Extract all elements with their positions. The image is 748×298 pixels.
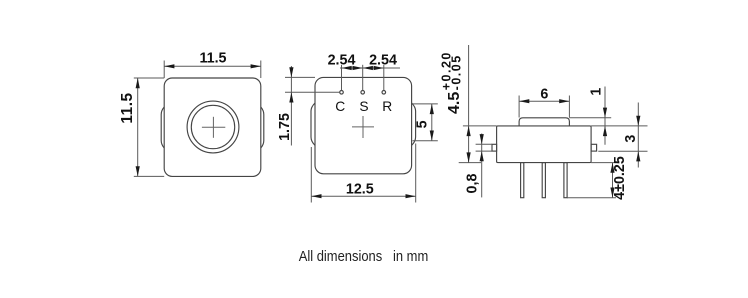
center cross horizontal — [352, 126, 374, 128]
svg-text:3: 3 — [623, 135, 639, 143]
dim 2.54: arrow at C pointing left — [342, 66, 352, 70]
dim 4.5: dimension line — [468, 45, 470, 163]
left ear front view — [161, 107, 164, 148]
dim 5: extension top — [413, 103, 438, 105]
dim 12.5: arrow left — [311, 194, 321, 198]
right ear back view — [412, 103, 416, 145]
extension body top right (shared by dim 1 and dim 3) — [591, 125, 647, 127]
body outline front view — [164, 78, 261, 176]
dim 1.75: arrow up — [289, 92, 293, 102]
dim 5: arrow up — [430, 104, 434, 114]
svg-text:R: R — [382, 99, 392, 114]
svg-text:2.54: 2.54 — [369, 52, 397, 68]
dim 0.8: arrow down (above) — [480, 134, 484, 144]
dim 4.5: arrow up — [467, 126, 471, 136]
dim 2.54: arrow at S pointing right — [353, 66, 363, 70]
dim 2.54: leader C vertical — [341, 65, 343, 91]
dim 12.5: extension right — [415, 144, 417, 203]
svg-text:12.5: 12.5 — [346, 182, 374, 198]
center cross vertical — [362, 116, 364, 138]
pin C circle — [340, 91, 344, 95]
right ear front view — [261, 107, 264, 148]
dim 0.8: extension tab top — [476, 143, 492, 145]
svg-text:-0.05: -0.05 — [450, 54, 464, 90]
dim 2.54: leader R vertical — [383, 65, 385, 91]
dim 2.54: leader S vertical — [362, 65, 364, 91]
dim 11.5 top: extension line right — [260, 61, 262, 79]
right tab side view — [591, 144, 597, 151]
dim 12.5: extension left — [310, 147, 312, 203]
svg-text:1.75: 1.75 — [277, 113, 293, 141]
dim 11.5 left: extension line bottom — [134, 175, 164, 177]
dome (rotor top) side view — [519, 118, 569, 126]
dim 11.5 left: arrow bottom — [136, 166, 140, 176]
dim 1: arrow down (above) — [603, 108, 607, 118]
svg-text:S: S — [359, 99, 368, 114]
dim 11.5 left: dimension line — [137, 78, 139, 176]
dim 6: extension right — [568, 96, 570, 118]
svg-text:2.54: 2.54 — [328, 52, 356, 68]
dim 6: arrow left — [519, 99, 529, 103]
dim 3: extension tab bottom — [598, 150, 647, 152]
body outline side view — [497, 126, 591, 163]
pin S circle — [361, 91, 365, 95]
dim 1: dimension line — [604, 87, 606, 145]
dim 6: extension left — [518, 96, 520, 118]
dim 11.5 top: arrow left — [164, 64, 174, 68]
dim 0.8: dimension line — [481, 134, 483, 198]
dim 2.54: arrow at R pointing right — [374, 66, 384, 70]
dim 2.54: dimension line — [340, 67, 400, 69]
cross slot vertical — [212, 117, 214, 138]
dim 11.5 left: arrow top — [136, 78, 140, 88]
svg-text:11.5: 11.5 — [199, 51, 226, 67]
dim 3: arrow up (below) — [636, 151, 640, 161]
dim 1.75: arrow down — [289, 67, 293, 77]
dim 6: arrow right — [559, 99, 569, 103]
dim 5: extension bottom — [413, 140, 438, 142]
dim 4.5: label — [440, 51, 464, 114]
svg-text:All dimensions in mm: All dimensions in mm — [299, 248, 429, 265]
inner circle knob — [191, 105, 234, 148]
dim 0.8: arrow up (below) — [480, 151, 484, 161]
svg-text:11.5: 11.5 — [119, 92, 136, 123]
dim 6: dimension line — [519, 100, 569, 102]
pin 3 side view — [564, 163, 567, 198]
dim 5: arrow down — [430, 131, 434, 141]
left tab side view — [492, 144, 497, 151]
dim 4±0.25: arrow up — [610, 163, 614, 173]
pin 1 side view — [521, 163, 524, 198]
dim 3: arrow down (above) — [636, 116, 640, 126]
outer circle knob — [187, 101, 239, 153]
cross slot horizontal — [202, 126, 225, 128]
dim 12.5: arrow right — [406, 194, 416, 198]
dim 11.5 top: arrow right — [251, 64, 261, 68]
dim 5: dimension line — [431, 104, 433, 141]
dim 1: extension dome top — [569, 117, 611, 119]
dim 12.5: dimension line — [311, 195, 415, 197]
svg-text:C: C — [335, 99, 345, 114]
dim 0.8: extension tab bottom — [476, 150, 492, 152]
dim 4±0.25: extension body bottom right — [591, 162, 616, 164]
dim 1: arrow up (below) — [603, 126, 607, 136]
svg-text:1: 1 — [589, 88, 605, 96]
dim 3: dimension line — [637, 103, 639, 168]
dim 11.5 left: extension line top — [134, 77, 164, 79]
dim 2.54: arrow at S pointing left — [363, 66, 373, 70]
dim 1.75: dimension line — [290, 66, 292, 146]
dim 4.5: extension body top left — [463, 125, 497, 127]
svg-text:0,8: 0,8 — [465, 174, 481, 194]
dim 4±0.25: arrow down — [610, 188, 614, 198]
dim 4.5: extension body bottom left — [459, 162, 481, 164]
dim 1.75: extension pin line — [285, 91, 340, 93]
pin 2 side view — [542, 163, 545, 198]
dim 4±0.25: dimension line — [612, 163, 614, 198]
dim 4.5: arrow down — [467, 152, 471, 162]
dim 1.75: extension top edge — [285, 76, 315, 78]
dim 11.5 top: dimension line — [164, 65, 261, 67]
body outline back view — [315, 77, 412, 173]
dim 4±0.25: extension pin bottom — [567, 197, 616, 199]
dim 11.5 top: extension line left — [163, 61, 165, 79]
left ear back view — [311, 103, 315, 145]
svg-text:5: 5 — [414, 120, 430, 128]
svg-text:6: 6 — [540, 87, 548, 103]
pin R circle — [382, 91, 386, 95]
svg-text:4±0.25: 4±0.25 — [612, 156, 628, 200]
